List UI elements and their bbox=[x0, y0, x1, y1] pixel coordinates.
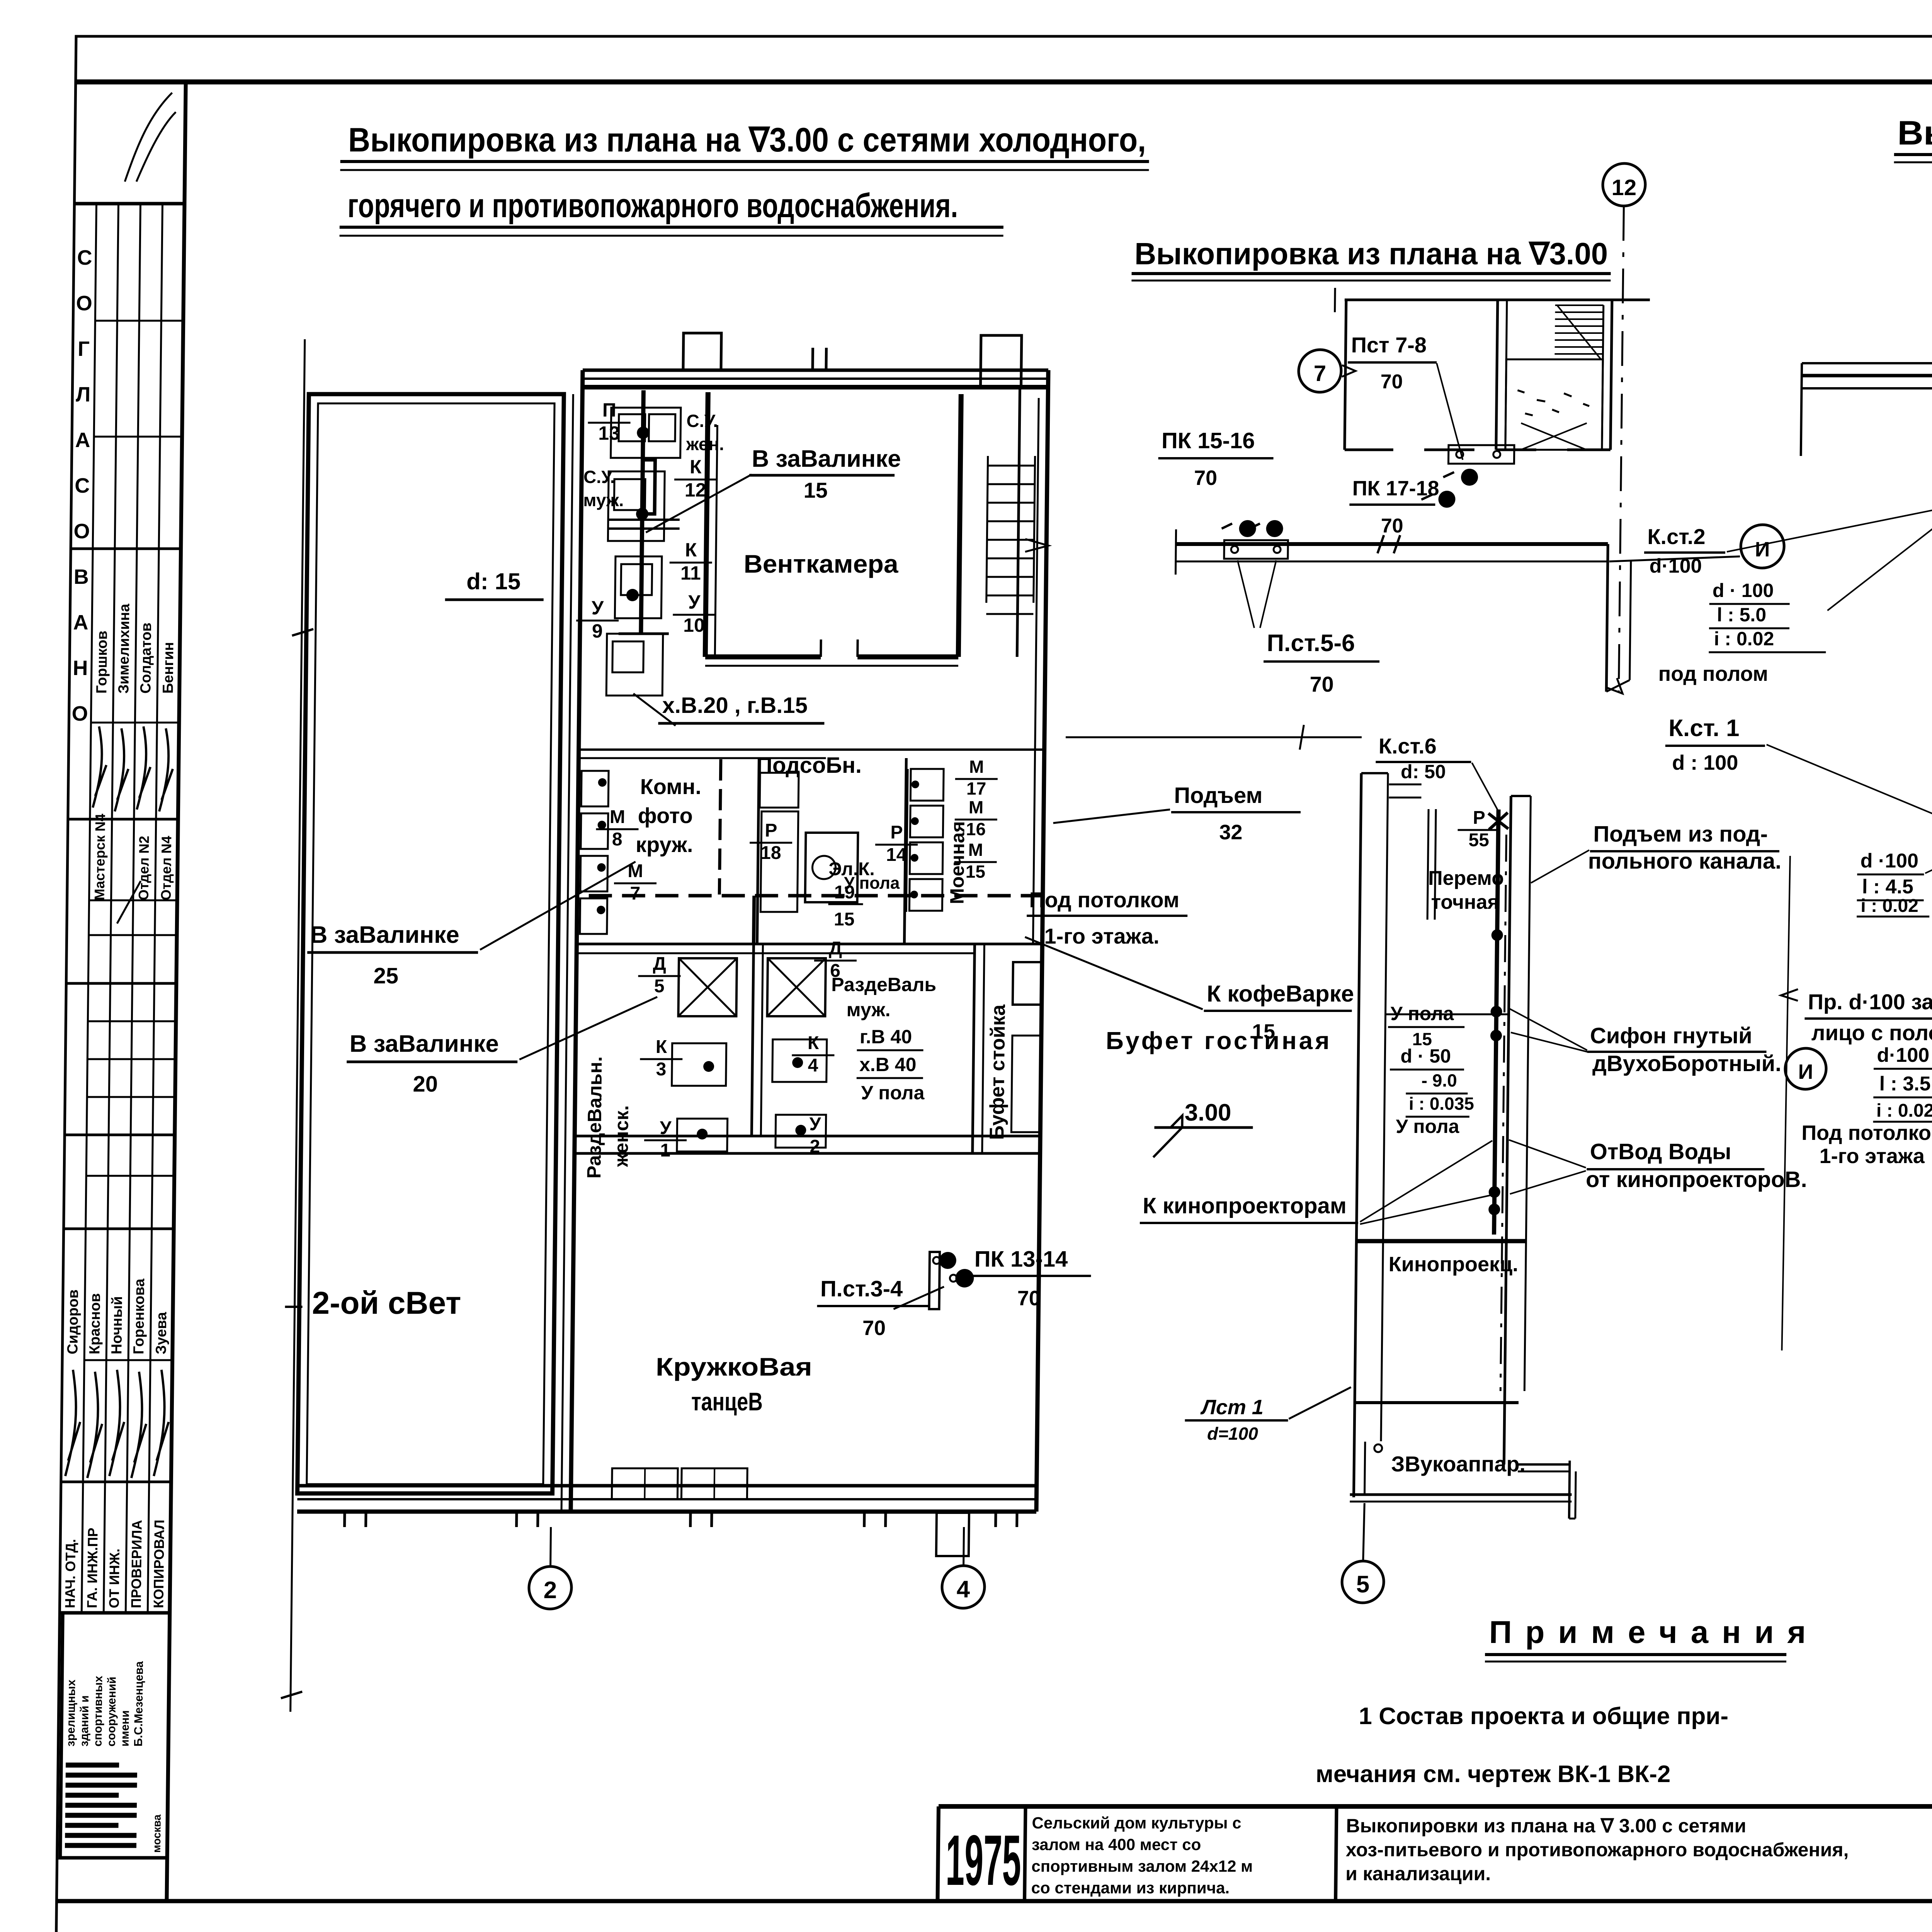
svg-text:9: 9 bbox=[592, 620, 603, 642]
svg-text:У пола: У пола bbox=[1396, 1116, 1460, 1137]
svg-text:точная: точная bbox=[1431, 891, 1499, 913]
ventkamera walls bbox=[705, 392, 708, 657]
inner frame top line bbox=[76, 80, 1932, 85]
mid strip walls bbox=[1354, 773, 1361, 1497]
moechnaya fixtures bbox=[910, 769, 944, 801]
svg-text:Перемо: Перемо bbox=[1428, 867, 1504, 889]
svg-text:ПК 13-14: ПК 13-14 bbox=[975, 1247, 1068, 1272]
vertical pipe in strip bbox=[1494, 810, 1499, 1235]
left plan outer walls bbox=[571, 370, 583, 1512]
signatures group 2 bbox=[65, 1370, 169, 1478]
dressing stalls left plan bbox=[678, 958, 737, 1016]
svg-text:3: 3 bbox=[656, 1059, 666, 1080]
svg-text:В заВалинке: В заВалинке bbox=[752, 446, 901, 472]
svg-text:Д: Д bbox=[829, 938, 842, 959]
svg-text:70: 70 bbox=[1380, 371, 1403, 393]
svg-text:К.ст. 1: К.ст. 1 bbox=[1668, 715, 1740, 742]
svg-text:залом на 400 мест со: залом на 400 мест со bbox=[1032, 1835, 1201, 1854]
svg-text:16: 16 bbox=[966, 819, 986, 839]
svg-text:d · 100: d · 100 bbox=[1713, 580, 1774, 601]
svg-text:К: К bbox=[685, 539, 697, 561]
svg-text:ГА. ИНЖ.ПР: ГА. ИНЖ.ПР bbox=[84, 1528, 100, 1608]
svg-text:14: 14 bbox=[886, 845, 907, 865]
svg-text:М: М bbox=[969, 797, 984, 817]
svg-text:М: М bbox=[968, 840, 983, 860]
svg-text:d·100: d·100 bbox=[1877, 1044, 1929, 1066]
svg-text:ПодсоБн.: ПодсоБн. bbox=[756, 753, 862, 778]
svg-text:1 Состав проекта и общие: 1 Состав проекта и общие при- bbox=[1359, 1703, 1728, 1730]
svg-text:5: 5 bbox=[1356, 1571, 1369, 1598]
axis circle 7 bbox=[1298, 350, 1341, 392]
svg-text:Зимелихина: Зимелихина bbox=[116, 604, 133, 694]
svg-text:ОтВод Воды: ОтВод Воды bbox=[1590, 1139, 1731, 1164]
stair arrow bbox=[1025, 539, 1048, 552]
pipe riser bbox=[641, 390, 644, 634]
svg-text:О: О bbox=[76, 292, 92, 315]
svg-text:15: 15 bbox=[834, 909, 855, 930]
left plan: axis line with arrows bbox=[291, 339, 305, 1712]
svg-text:d ·100: d ·100 bbox=[1860, 850, 1918, 872]
door swing X bbox=[1521, 423, 1587, 450]
detail left room walls bbox=[1345, 300, 1346, 450]
svg-text:2-ой сВет: 2-ой сВет bbox=[312, 1286, 461, 1321]
svg-text:круж.: круж. bbox=[636, 832, 693, 857]
axis dash-dot line bbox=[1619, 206, 1624, 692]
svg-text:1-го этажа: 1-го этажа bbox=[1819, 1145, 1925, 1168]
svg-text:5: 5 bbox=[654, 976, 665, 997]
electric stove bbox=[805, 833, 858, 902]
svg-text:55: 55 bbox=[1468, 830, 1489, 850]
axis circle 4 left bbox=[942, 1566, 985, 1608]
chimney box 2 bbox=[981, 335, 1022, 387]
svg-text:У: У bbox=[592, 597, 604, 619]
svg-text:К: К bbox=[808, 1033, 820, 1053]
svg-text:КОПИРОВАЛ: КОПИРОВАЛ bbox=[150, 1520, 167, 1608]
svg-text:Р: Р bbox=[1473, 808, 1486, 828]
svg-text:Выкопировки из плана на ∇ 3: Выкопировки из плана на ∇ 3.00 с сетями bbox=[1346, 1815, 1746, 1837]
svg-text:17: 17 bbox=[966, 778, 986, 798]
bottom double doors left plan bbox=[612, 1468, 678, 1499]
stamp column signature cell bbox=[74, 202, 184, 206]
wall above dressing bbox=[577, 943, 1042, 946]
room divider 1 bbox=[1386, 1014, 1509, 1015]
svg-text:Подъем: Подъем bbox=[1174, 783, 1263, 808]
svg-text:К кинопроекторам: К кинопроекторам bbox=[1143, 1193, 1347, 1218]
svg-text:ПРОВЕРИЛА: ПРОВЕРИЛА bbox=[128, 1520, 145, 1608]
svg-text:d · 50: d · 50 bbox=[1400, 1045, 1451, 1067]
svg-text:i : 0.02: i : 0.02 bbox=[1861, 896, 1918, 916]
svg-text:3.00: 3.00 bbox=[1184, 1099, 1231, 1126]
long vertical leader line between plans bbox=[1782, 856, 1790, 1350]
svg-text:d=100: d=100 bbox=[1207, 1423, 1259, 1444]
porch left plan bbox=[936, 1513, 969, 1556]
sanitary cluster left plan bbox=[611, 408, 681, 458]
svg-text:13: 13 bbox=[598, 422, 620, 444]
svg-text:муж.: муж. bbox=[583, 490, 624, 510]
svg-text:70: 70 bbox=[1194, 466, 1218, 490]
svg-text:- 9.0: - 9.0 bbox=[1421, 1070, 1457, 1090]
photo room fixtures bbox=[581, 771, 609, 806]
svg-text:Сифон гнутый: Сифон гнутый bbox=[1590, 1023, 1753, 1048]
TsNIIEP logo stripes bbox=[66, 1763, 119, 1768]
svg-text:М: М bbox=[610, 807, 626, 827]
corridor cut line bbox=[1066, 736, 1362, 738]
svg-text:П: П bbox=[602, 399, 617, 421]
inner frame bottom line bbox=[56, 1899, 1932, 1903]
svg-text:муж.: муж. bbox=[846, 999, 891, 1020]
svg-text:i : 0.02: i : 0.02 bbox=[1714, 628, 1774, 650]
svg-text:11: 11 bbox=[680, 562, 701, 584]
svg-text:КружкоВая: КружкоВая bbox=[656, 1352, 813, 1381]
svg-text:ОТ ИНЖ.: ОТ ИНЖ. bbox=[106, 1549, 122, 1608]
left plan stair hatch bbox=[986, 456, 988, 603]
svg-text:И: И bbox=[1798, 1060, 1813, 1083]
svg-text:со стендами из кирпича.: со стендами из кирпича. bbox=[1031, 1879, 1230, 1897]
svg-text:Г: Г bbox=[78, 337, 90, 361]
svg-text:РаздеВаль: РаздеВаль bbox=[831, 974, 937, 995]
bottom wall of dressing bbox=[575, 1135, 1040, 1138]
svg-text:москва: москва bbox=[151, 1814, 163, 1853]
svg-text:ЗВукоаппар.: ЗВукоаппар. bbox=[1391, 1452, 1526, 1476]
svg-text:d: 15: d: 15 bbox=[466, 568, 521, 594]
svg-text:Ночный: Ночный bbox=[109, 1296, 126, 1354]
svg-text:1-го этажа.: 1-го этажа. bbox=[1044, 924, 1160, 948]
tick bbox=[811, 348, 814, 370]
detail top wall bbox=[1345, 299, 1650, 301]
valve X bbox=[1488, 813, 1509, 830]
leader to I circle bbox=[1609, 556, 1740, 561]
pipe run u pola bbox=[589, 894, 1041, 898]
svg-text:1975: 1975 bbox=[945, 1821, 1021, 1900]
svg-text:лицо с полом: лицо с полом bbox=[1811, 1020, 1932, 1045]
svg-text:Горенкова: Горенкова bbox=[131, 1278, 148, 1354]
TsNIIEP institute box bbox=[60, 1613, 170, 1858]
svg-text:20: 20 bbox=[413, 1071, 438, 1097]
svg-text:У: У bbox=[688, 591, 701, 613]
fixtures on pipe bbox=[1448, 445, 1514, 464]
svg-text:d·100: d·100 bbox=[1649, 555, 1702, 577]
svg-text:У: У bbox=[809, 1114, 821, 1134]
svg-text:12: 12 bbox=[685, 479, 706, 501]
left plan bottom wall band bbox=[298, 1484, 1037, 1488]
svg-text:В заВалинке: В заВалинке bbox=[310, 922, 459, 948]
stair treads bbox=[1555, 304, 1604, 306]
svg-text:сооружений: сооружений bbox=[105, 1677, 119, 1747]
axis circle И lower bbox=[1785, 1048, 1826, 1089]
right plan top wall band bbox=[1802, 362, 1932, 364]
svg-text:25: 25 bbox=[373, 963, 398, 988]
center wall bbox=[752, 944, 753, 1136]
svg-text:Сельский дом культуры с: Сельский дом культуры с bbox=[1032, 1814, 1241, 1832]
svg-text:Краснов: Краснов bbox=[87, 1293, 104, 1354]
slash in cell bbox=[117, 881, 141, 923]
svg-text:l : 4.5: l : 4.5 bbox=[1862, 876, 1914, 898]
svg-text:4: 4 bbox=[808, 1055, 818, 1076]
svg-text:танцеВ: танцеВ bbox=[691, 1387, 763, 1416]
svg-text:польного канала.: польного канала. bbox=[1588, 849, 1781, 874]
svg-text:d: 50: d: 50 bbox=[1401, 761, 1446, 782]
svg-text:А: А bbox=[73, 611, 88, 634]
svg-text:Н: Н bbox=[73, 656, 88, 680]
svg-text:Солдатов: Солдатов bbox=[138, 622, 155, 694]
svg-text:И: И bbox=[1755, 538, 1770, 561]
svg-text:К кофеВарке: К кофеВарке bbox=[1207, 981, 1354, 1007]
svg-text:Бенгин: Бенгин bbox=[160, 642, 177, 694]
svg-text:НАЧ. ОТД.: НАЧ. ОТД. bbox=[62, 1539, 78, 1608]
svg-text:1: 1 bbox=[660, 1140, 670, 1161]
svg-text:А: А bbox=[75, 429, 90, 452]
svg-text:i : 0.02: i : 0.02 bbox=[1876, 1100, 1932, 1121]
svg-text:70: 70 bbox=[1017, 1287, 1041, 1310]
left plan tall room (2nd light) walls bbox=[298, 394, 564, 1493]
svg-text:Подъем из под-: Подъем из под- bbox=[1593, 821, 1768, 847]
stairwell walls bbox=[1496, 300, 1498, 450]
svg-text:2: 2 bbox=[543, 1577, 557, 1604]
svg-text:мечания см. чертеж ВК-1: мечания см. чертеж ВК-1 ВК-2 bbox=[1316, 1761, 1671, 1787]
leader mark bbox=[1342, 365, 1355, 377]
svg-text:М: М bbox=[969, 757, 984, 777]
svg-text:дВухоБоротный.: дВухоБоротный. bbox=[1592, 1051, 1782, 1076]
arrow bbox=[1607, 678, 1622, 694]
svg-text:от кинопроектороВ.: от кинопроектороВ. bbox=[1586, 1167, 1807, 1192]
svg-text:С.У.: С.У. bbox=[686, 411, 718, 431]
svg-text:Мастерск N4: Мастерск N4 bbox=[92, 814, 108, 900]
svg-text:В: В bbox=[74, 565, 89, 588]
svg-text:Венткамера: Венткамера bbox=[743, 549, 899, 578]
svg-text:жен.: жен. bbox=[686, 434, 724, 454]
svg-text:10: 10 bbox=[683, 614, 705, 636]
svg-text:В заВалинке: В заВалинке bbox=[349, 1031, 499, 1057]
stair diagonal bbox=[1556, 305, 1601, 359]
svg-text:зрелищных: зрелищных bbox=[65, 1680, 78, 1747]
left plan ventkamera right walls bbox=[958, 394, 961, 657]
svg-text:под полом: под полом bbox=[1658, 662, 1768, 685]
svg-text:спортивных: спортивных bbox=[92, 1676, 105, 1747]
svg-text:горячего и противопожарного во: горячего и противопожарного водоснабжени… bbox=[347, 186, 958, 224]
stair landing lower bbox=[1505, 359, 1603, 450]
svg-text:О: О bbox=[73, 520, 90, 543]
svg-text:Комн.: Комн. bbox=[640, 774, 701, 799]
svg-text:32: 32 bbox=[1219, 821, 1243, 844]
svg-text:Выкопировка из плана на ∇3.00: Выкопировка из плана на ∇3.00 с сетями bbox=[1897, 114, 1932, 152]
dash pipe left plan bbox=[719, 759, 721, 895]
svg-text:Кинопроекц.: Кинопроекц. bbox=[1388, 1253, 1518, 1276]
svg-text:12: 12 bbox=[1611, 175, 1636, 200]
zvukoappar bbox=[1374, 1444, 1382, 1452]
room divider 2 bbox=[1356, 1239, 1526, 1243]
svg-text:У пола: У пола bbox=[844, 874, 900, 893]
room divider 3 bbox=[1355, 1401, 1519, 1404]
pipe drop bbox=[753, 896, 754, 944]
svg-text:П.ст.3-4: П.ст.3-4 bbox=[820, 1276, 903, 1301]
svg-text:и канализации.: и канализации. bbox=[1345, 1863, 1491, 1884]
svg-text:7: 7 bbox=[630, 883, 640, 904]
svg-text:С: С bbox=[77, 246, 92, 269]
svg-text:Буфет стойка: Буфет стойка bbox=[986, 1004, 1010, 1140]
svg-text:хоз-питьевого и противопожар: хоз-питьевого и противопожарного водосна… bbox=[1346, 1839, 1849, 1861]
svg-text:70: 70 bbox=[862, 1316, 886, 1340]
svg-text:Сидоров: Сидоров bbox=[65, 1289, 82, 1354]
wall under san block bbox=[579, 748, 1044, 751]
svg-text:У пола: У пола bbox=[861, 1082, 925, 1104]
concrete speckles bbox=[1517, 390, 1590, 415]
axis circle 2 left bbox=[529, 1566, 571, 1609]
svg-text:Под потолком: Под потолком bbox=[1801, 1121, 1932, 1145]
svg-text:4: 4 bbox=[956, 1576, 970, 1603]
svg-text:Зуева: Зуева bbox=[153, 1312, 170, 1354]
svg-text:l : 5.0: l : 5.0 bbox=[1717, 604, 1766, 626]
title block outline bbox=[939, 1804, 1932, 1809]
svg-text:х.В 40: х.В 40 bbox=[859, 1054, 917, 1075]
svg-text:18: 18 bbox=[760, 843, 781, 863]
pipe break marks bbox=[1378, 535, 1400, 553]
svg-text:Б.С.Мезенцева: Б.С.Мезенцева bbox=[132, 1661, 146, 1747]
svg-text:РаздеВальн.: РаздеВальн. bbox=[583, 1056, 606, 1179]
strip bottom band bbox=[1350, 1493, 1571, 1496]
svg-text:15: 15 bbox=[803, 478, 828, 502]
svg-text:Выкопировка из плана на ∇3.00: Выкопировка из плана на ∇3.00 с сетями х… bbox=[348, 121, 1146, 159]
svg-text:К.ст.2: К.ст.2 bbox=[1647, 524, 1706, 549]
signatures group 1 bbox=[93, 726, 173, 811]
chimney box 1 bbox=[683, 333, 721, 370]
svg-text:Пст 7-8: Пст 7-8 bbox=[1351, 333, 1427, 357]
svg-text:l : 3.5: l : 3.5 bbox=[1879, 1073, 1931, 1095]
svg-text:Д: Д bbox=[653, 954, 666, 974]
svg-text:Горшков: Горшков bbox=[94, 631, 111, 694]
stamp column row lines bbox=[95, 320, 183, 322]
buffet counter corridor bbox=[973, 944, 975, 1153]
fixture leader lines P.st.5-6 bbox=[1237, 560, 1276, 628]
svg-text:70: 70 bbox=[1310, 672, 1334, 696]
svg-text:К: К bbox=[656, 1037, 668, 1057]
svg-text:Под потолком: Под потолком bbox=[1029, 888, 1179, 912]
svg-text:имени: имени bbox=[119, 1710, 132, 1747]
svg-text:Р: Р bbox=[765, 820, 777, 841]
stamp column right edge bbox=[167, 82, 185, 1901]
left plan partition walls bbox=[757, 758, 759, 944]
svg-text:Р: Р bbox=[890, 822, 903, 843]
svg-text:Отдел N2: Отдел N2 bbox=[136, 836, 152, 900]
svg-text:К: К bbox=[690, 456, 702, 478]
svg-text:фото: фото bbox=[638, 803, 693, 828]
pipe bbox=[905, 769, 907, 912]
svg-text:i : 0.035: i : 0.035 bbox=[1409, 1094, 1474, 1114]
svg-text:Отдел N4: Отдел N4 bbox=[158, 836, 175, 900]
svg-text:7: 7 bbox=[1313, 361, 1326, 386]
wall corner down to arrow bbox=[1606, 544, 1608, 692]
svg-text:У пола: У пола bbox=[1390, 1003, 1454, 1024]
stamp column sub-dividers bbox=[82, 204, 96, 1613]
axis circle И top bbox=[1741, 525, 1784, 568]
svg-text:ПК 15-16: ПК 15-16 bbox=[1162, 428, 1255, 453]
svg-text:х.В.20 , г.В.15: х.В.20 , г.В.15 bbox=[662, 693, 808, 718]
svg-text:8: 8 bbox=[612, 829, 622, 850]
signature scribble top cell bbox=[125, 93, 176, 182]
svg-text:Буфет гостиная: Буфет гостиная bbox=[1105, 1027, 1332, 1054]
svg-text:спортивным залом 24х12 м: спортивным залом 24х12 м bbox=[1031, 1857, 1253, 1875]
svg-text:Выкопировка из плана на ∇3.00: Выкопировка из плана на ∇3.00 bbox=[1134, 236, 1608, 271]
svg-text:70: 70 bbox=[1381, 515, 1403, 537]
svg-text:С: С bbox=[75, 474, 90, 497]
svg-text:15: 15 bbox=[966, 861, 986, 881]
svg-text:Лст 1: Лст 1 bbox=[1200, 1396, 1264, 1419]
svg-text:г.В 40: г.В 40 bbox=[860, 1026, 912, 1048]
svg-text:К.ст.6: К.ст.6 bbox=[1378, 734, 1437, 758]
horizontal pipe bbox=[1176, 542, 1608, 546]
svg-text:d : 100: d : 100 bbox=[1672, 751, 1738, 774]
svg-text:С.У.: С.У. bbox=[583, 467, 615, 487]
axis circle 5 bbox=[1363, 1503, 1365, 1561]
left plan main top wall band bbox=[583, 369, 1048, 372]
svg-text:П.ст.5-6: П.ст.5-6 bbox=[1267, 630, 1355, 656]
svg-text:П р и м е ч а н и я: П р и м е ч а н и я bbox=[1489, 1615, 1808, 1650]
svg-text:Пр. d·100 запод-: Пр. d·100 запод- bbox=[1808, 990, 1932, 1014]
left plan bottom axis leaders bbox=[551, 1527, 551, 1566]
P.st.3-4 fixtures bbox=[929, 1252, 940, 1309]
svg-text:Л: Л bbox=[76, 383, 91, 406]
svg-text:зданий и: зданий и bbox=[78, 1696, 91, 1747]
svg-text:О: О bbox=[71, 702, 88, 725]
axis circle 12 bbox=[1602, 163, 1645, 206]
